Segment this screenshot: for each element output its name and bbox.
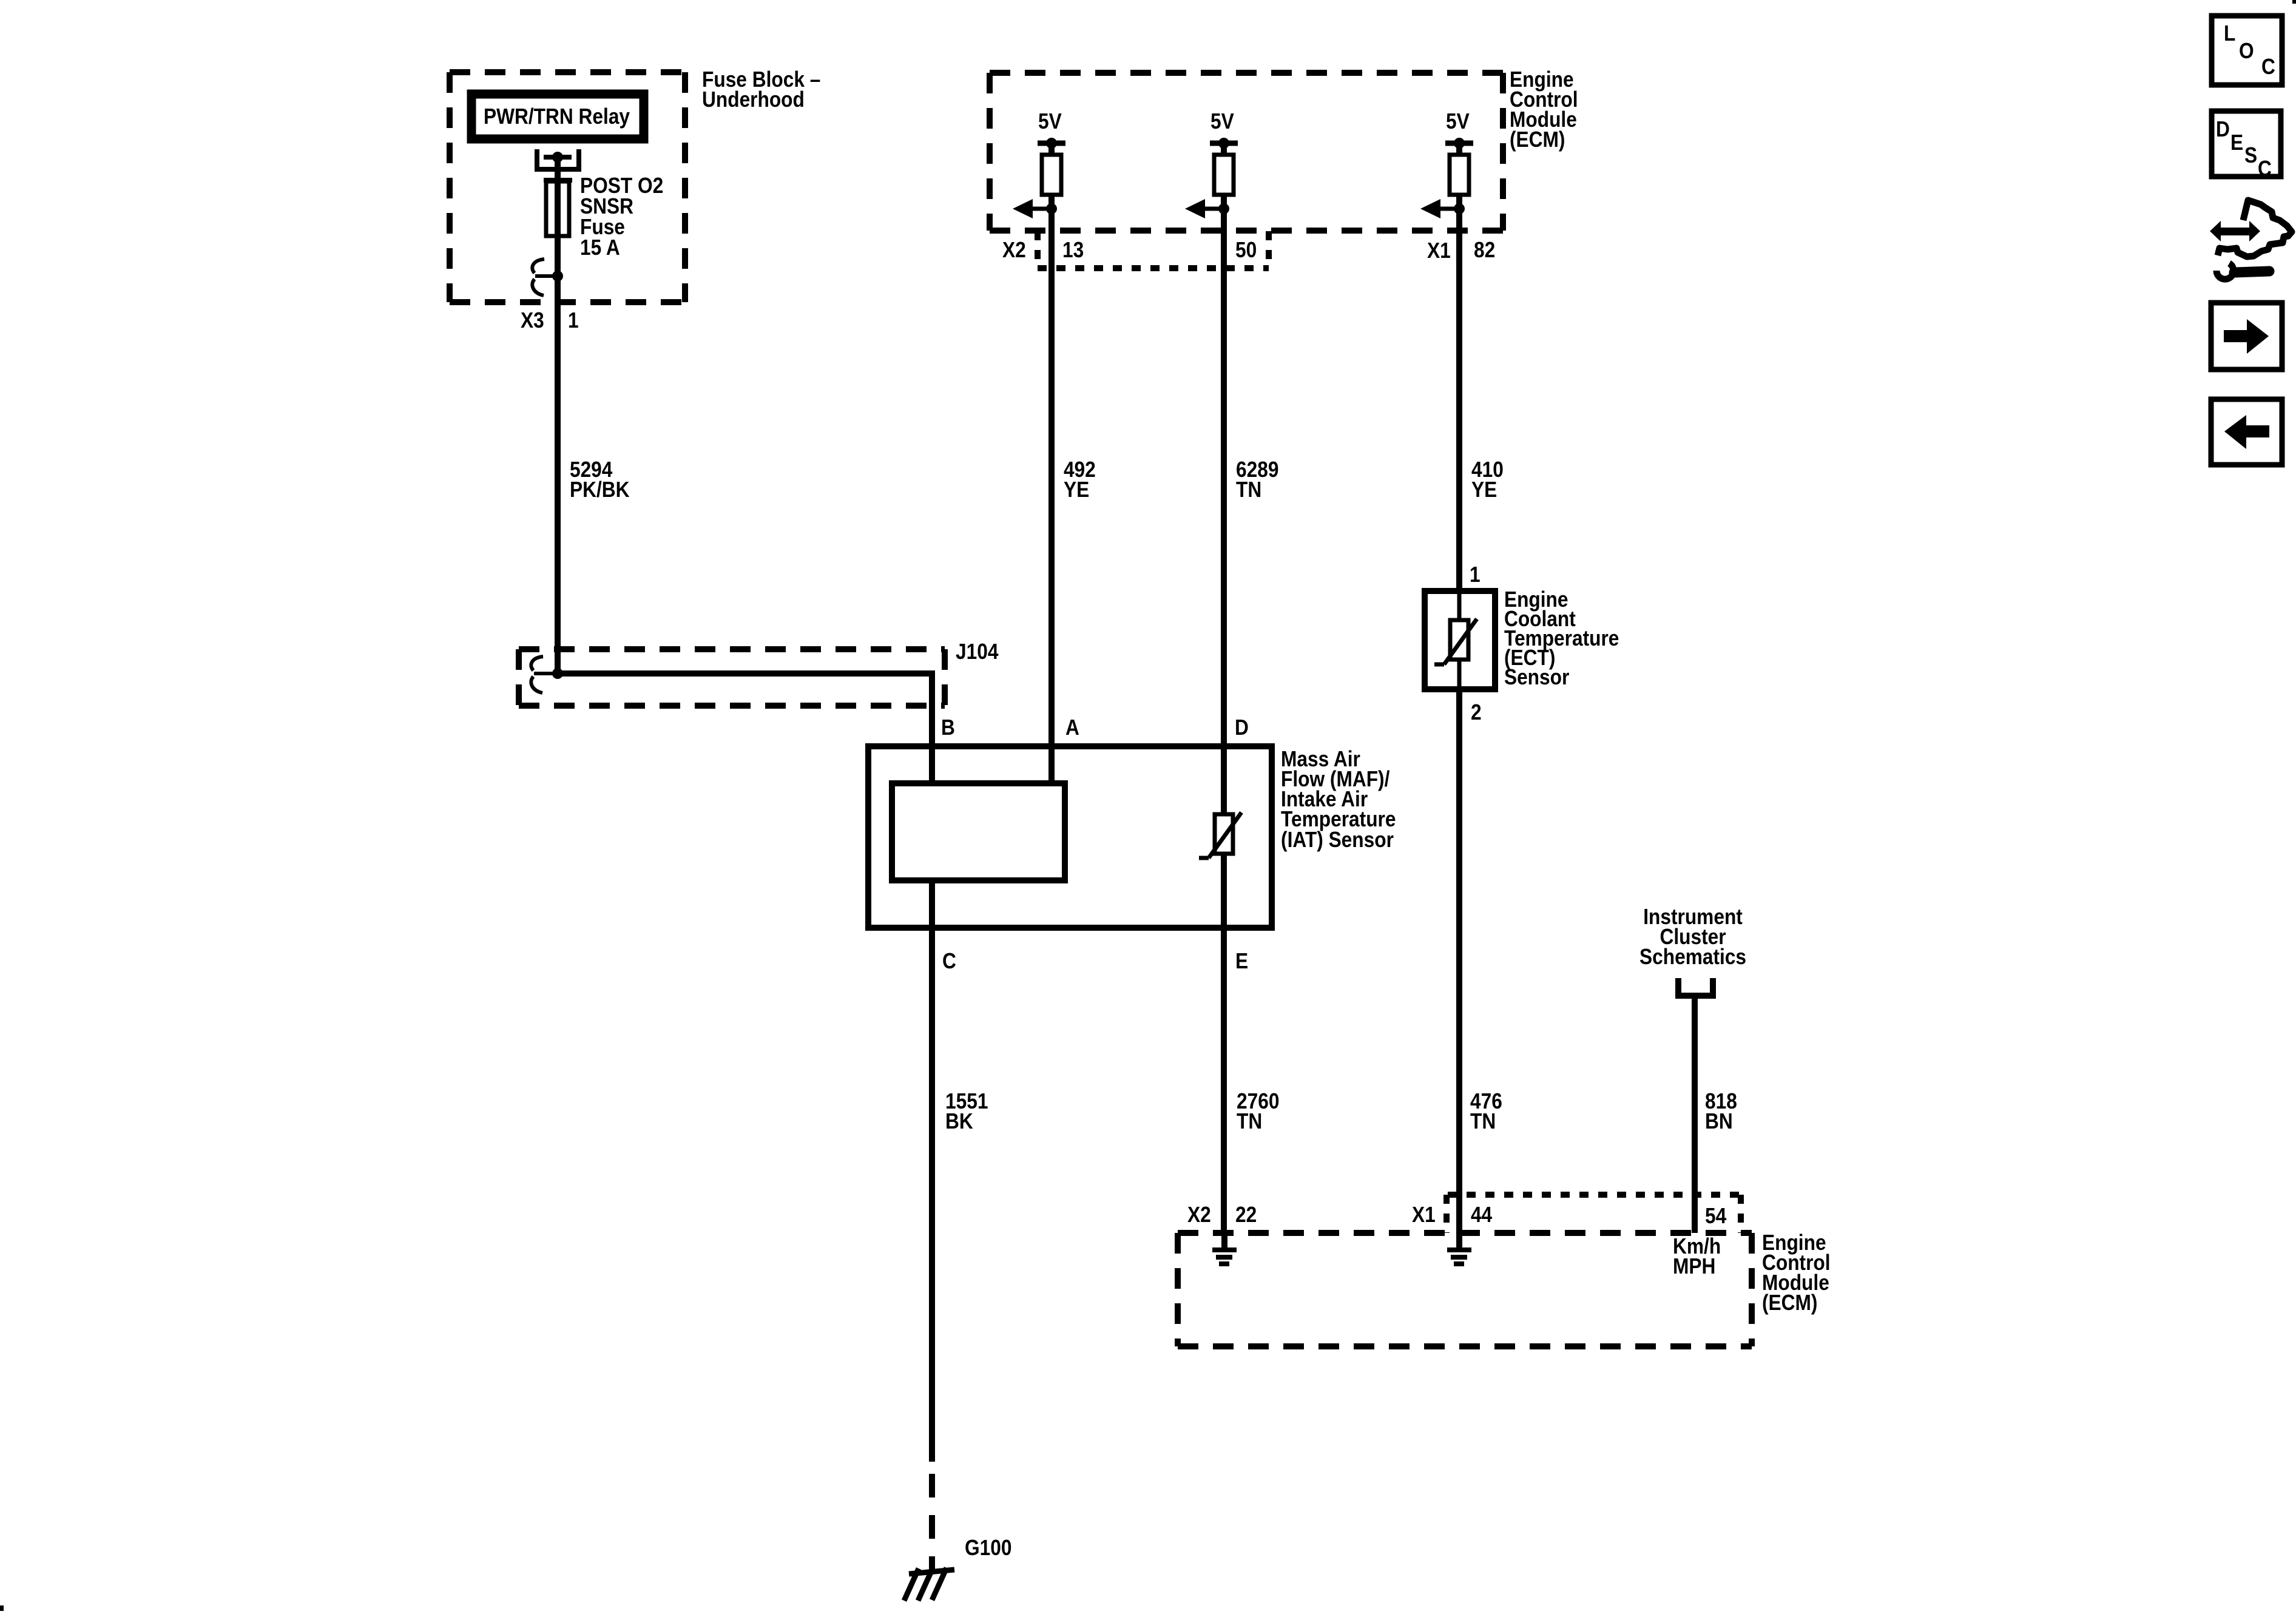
wire 1551 BK (MAF C to G100) — [929, 928, 935, 1462]
wire MAF C internal — [929, 880, 935, 928]
svg-text:C: C — [2258, 157, 2272, 181]
wire 5V to resistor 3 — [1456, 143, 1462, 209]
svg-text:82: 82 — [1474, 238, 1495, 262]
svg-text:X2: X2 — [1187, 1203, 1211, 1227]
splice clip — [531, 657, 556, 693]
wire 492 YE (ECM X2-13 to MAF A) — [1048, 209, 1055, 783]
5V tap bar 3 — [1445, 141, 1473, 146]
svg-text:13: 13 — [1062, 238, 1084, 262]
svg-text:15 A: 15 A — [580, 235, 620, 260]
signal arrow 3 — [1440, 207, 1459, 211]
connector-view icon: body outline — [2218, 200, 2292, 257]
svg-text:1: 1 — [568, 308, 579, 333]
J104 dashed box — [519, 649, 945, 706]
svg-text:5V: 5V — [1446, 109, 1470, 133]
5V tap bar 1 — [1038, 141, 1065, 146]
IAT thermistor — [1199, 746, 1241, 928]
svg-text:Underhood: Underhood — [702, 87, 805, 112]
svg-text:1: 1 — [1470, 562, 1481, 587]
resistor R1 — [1042, 155, 1061, 195]
ECM X2 connector dotted box — [1038, 231, 1269, 268]
svg-text:BK: BK — [945, 1109, 973, 1133]
junction dot fuse exit — [552, 271, 563, 282]
wire 410 YE (ECM X1-82 to ECT 1) — [1456, 209, 1462, 591]
svg-text:44: 44 — [1471, 1203, 1492, 1227]
svg-text:BN: BN — [1705, 1109, 1733, 1133]
svg-text:22: 22 — [1235, 1203, 1257, 1227]
svg-text:G100: G100 — [965, 1536, 1011, 1560]
svg-text:X1: X1 — [1412, 1203, 1436, 1227]
svg-text:(ECM): (ECM) — [1762, 1291, 1817, 1315]
back arrow icon box — [2211, 399, 2282, 465]
fuse block dashed box — [450, 72, 685, 302]
DESC icon box — [2212, 111, 2281, 181]
ECT sensor box — [1425, 591, 1495, 689]
junction dot J104 — [552, 668, 563, 679]
wire 6289 TN (ECM X2-50 to MAF D) — [1221, 209, 1227, 814]
svg-text:C: C — [2261, 55, 2275, 79]
svg-text:J104: J104 — [956, 640, 999, 664]
svg-text:E: E — [1235, 949, 1248, 973]
LOC icon box — [2212, 16, 2282, 85]
resistor R3 — [1450, 155, 1469, 195]
wire 2760 TN (MAF E to ECM X2-22) — [1221, 928, 1227, 1233]
svg-text:TN: TN — [1237, 1109, 1262, 1133]
connector-view icon: wrench — [2217, 263, 2269, 279]
wire 476 TN (ECT 2 to ECM X1-44) — [1456, 689, 1462, 1233]
clip connector at fuse block exit — [532, 259, 558, 295]
svg-text:X2: X2 — [1002, 238, 1026, 262]
junction dot relay terminal — [552, 152, 563, 163]
PWR/TRN relay box — [471, 94, 644, 139]
forward arrow icon box — [2211, 303, 2282, 370]
svg-text:2: 2 — [1471, 700, 1482, 724]
svg-text:A: A — [1065, 715, 1079, 740]
5V pull-up 2 (x=2017) — [1185, 109, 1238, 218]
MAF inner element — [892, 783, 1065, 880]
relay output bracket terminal — [537, 149, 579, 169]
wire 5V to resistor 2 — [1221, 143, 1227, 209]
5V pull-up 1 (x=1733) — [1013, 109, 1065, 218]
chassis ground at pin 22 — [1212, 1233, 1237, 1264]
svg-text:YE: YE — [1064, 478, 1089, 502]
svg-text:YE: YE — [1471, 478, 1497, 502]
svg-text:B: B — [941, 715, 955, 740]
MAF sensor box — [868, 746, 1272, 928]
5V tap bar 2 — [1210, 141, 1238, 146]
svg-text:X3: X3 — [521, 308, 544, 333]
ECM X1 connector dotted box bottom — [1447, 1195, 1741, 1233]
svg-text:L: L — [2224, 21, 2235, 46]
svg-text:D: D — [1235, 715, 1249, 740]
chassis ground at pin 44 — [1447, 1233, 1471, 1264]
wire J104 to MAF pin B — [558, 673, 932, 783]
svg-text:Sensor: Sensor — [1504, 665, 1569, 689]
svg-text:D: D — [2216, 117, 2230, 141]
svg-text:C: C — [942, 949, 956, 973]
svg-text:PK/BK: PK/BK — [570, 478, 630, 502]
svg-text:(IAT) Sensor: (IAT) Sensor — [1281, 828, 1394, 852]
svg-text:X1: X1 — [1427, 238, 1451, 263]
svg-text:S: S — [2244, 143, 2257, 167]
svg-text:PWR/TRN Relay: PWR/TRN Relay — [484, 104, 630, 129]
ECM dashed box — [990, 73, 1503, 231]
svg-text:TN: TN — [1236, 478, 1261, 502]
svg-text:TN: TN — [1470, 1109, 1496, 1133]
stray period bottom-left — [0, 1605, 4, 1611]
svg-text:Schematics: Schematics — [1639, 945, 1746, 969]
signal arrow 1 — [1033, 207, 1052, 211]
ECM bottom dashed box — [1178, 1233, 1752, 1346]
page corner tick — [2292, 0, 2296, 4]
svg-text:54: 54 — [1705, 1204, 1726, 1228]
connector-view icon: double arrow — [2210, 221, 2260, 241]
wire 5V to resistor 1 — [1048, 143, 1055, 209]
wire from relay through fuse to J104 — [555, 157, 561, 673]
svg-text:5V: 5V — [1038, 109, 1062, 133]
svg-text:50: 50 — [1235, 238, 1257, 262]
svg-text:MPH: MPH — [1673, 1254, 1715, 1278]
wire 818 BN — [1692, 996, 1698, 1233]
svg-text:O: O — [2239, 39, 2254, 63]
svg-text:(ECM): (ECM) — [1510, 127, 1565, 152]
resistor R2 — [1214, 155, 1234, 195]
svg-text:E: E — [2230, 130, 2243, 155]
off-page connector bracket — [1678, 978, 1713, 996]
fuse POST O2 SNSR 15A — [544, 180, 572, 236]
signal arrow 2 — [1205, 207, 1224, 211]
ECT thermistor — [1434, 591, 1477, 689]
svg-text:5V: 5V — [1210, 109, 1234, 133]
5V pull-up 3 (x=2405) — [1420, 109, 1473, 218]
ground G100 — [904, 1568, 954, 1601]
dashed wire to G100 — [929, 1474, 935, 1570]
